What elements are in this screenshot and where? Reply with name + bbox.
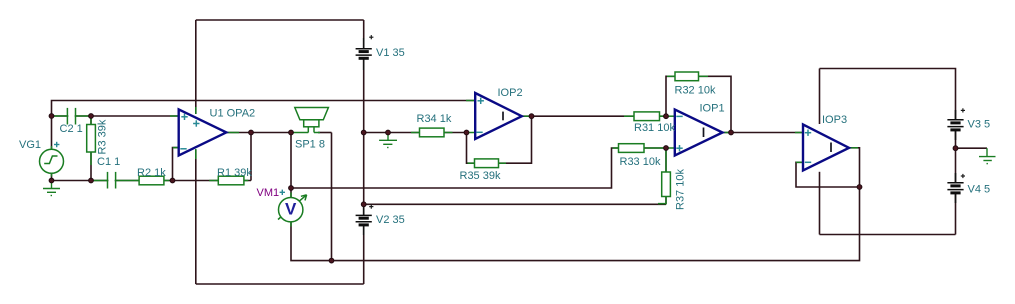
svg-text:V1 35: V1 35 <box>376 47 405 59</box>
svg-text:C1 1: C1 1 <box>97 156 120 168</box>
svg-text:IOP1: IOP1 <box>700 103 725 115</box>
svg-text:R37 10k: R37 10k <box>675 169 687 210</box>
svg-text:R34 1k: R34 1k <box>417 113 452 125</box>
svg-text:C2 1: C2 1 <box>60 123 83 135</box>
svg-text:R31 10k: R31 10k <box>634 122 675 134</box>
svg-text:R3 39k: R3 39k <box>97 119 109 154</box>
svg-text:IOP3: IOP3 <box>822 114 847 126</box>
svg-text:U1 OPA2: U1 OPA2 <box>210 108 256 120</box>
svg-text:V: V <box>285 200 297 219</box>
svg-text:R1 39k: R1 39k <box>217 167 252 179</box>
svg-text:VG1: VG1 <box>19 139 41 151</box>
svg-text:V3 5: V3 5 <box>968 119 991 131</box>
svg-text:V2 35: V2 35 <box>376 214 405 226</box>
svg-text:R2 1k: R2 1k <box>137 167 166 179</box>
svg-text:R33 10k: R33 10k <box>620 156 661 168</box>
svg-text:VM1: VM1 <box>257 187 280 199</box>
svg-text:SP1 8: SP1 8 <box>295 139 325 151</box>
svg-text:IOP2: IOP2 <box>498 87 523 99</box>
svg-text:V4 5: V4 5 <box>968 184 991 196</box>
svg-text:R35 39k: R35 39k <box>460 170 501 182</box>
svg-text:R32 10k: R32 10k <box>675 85 716 97</box>
